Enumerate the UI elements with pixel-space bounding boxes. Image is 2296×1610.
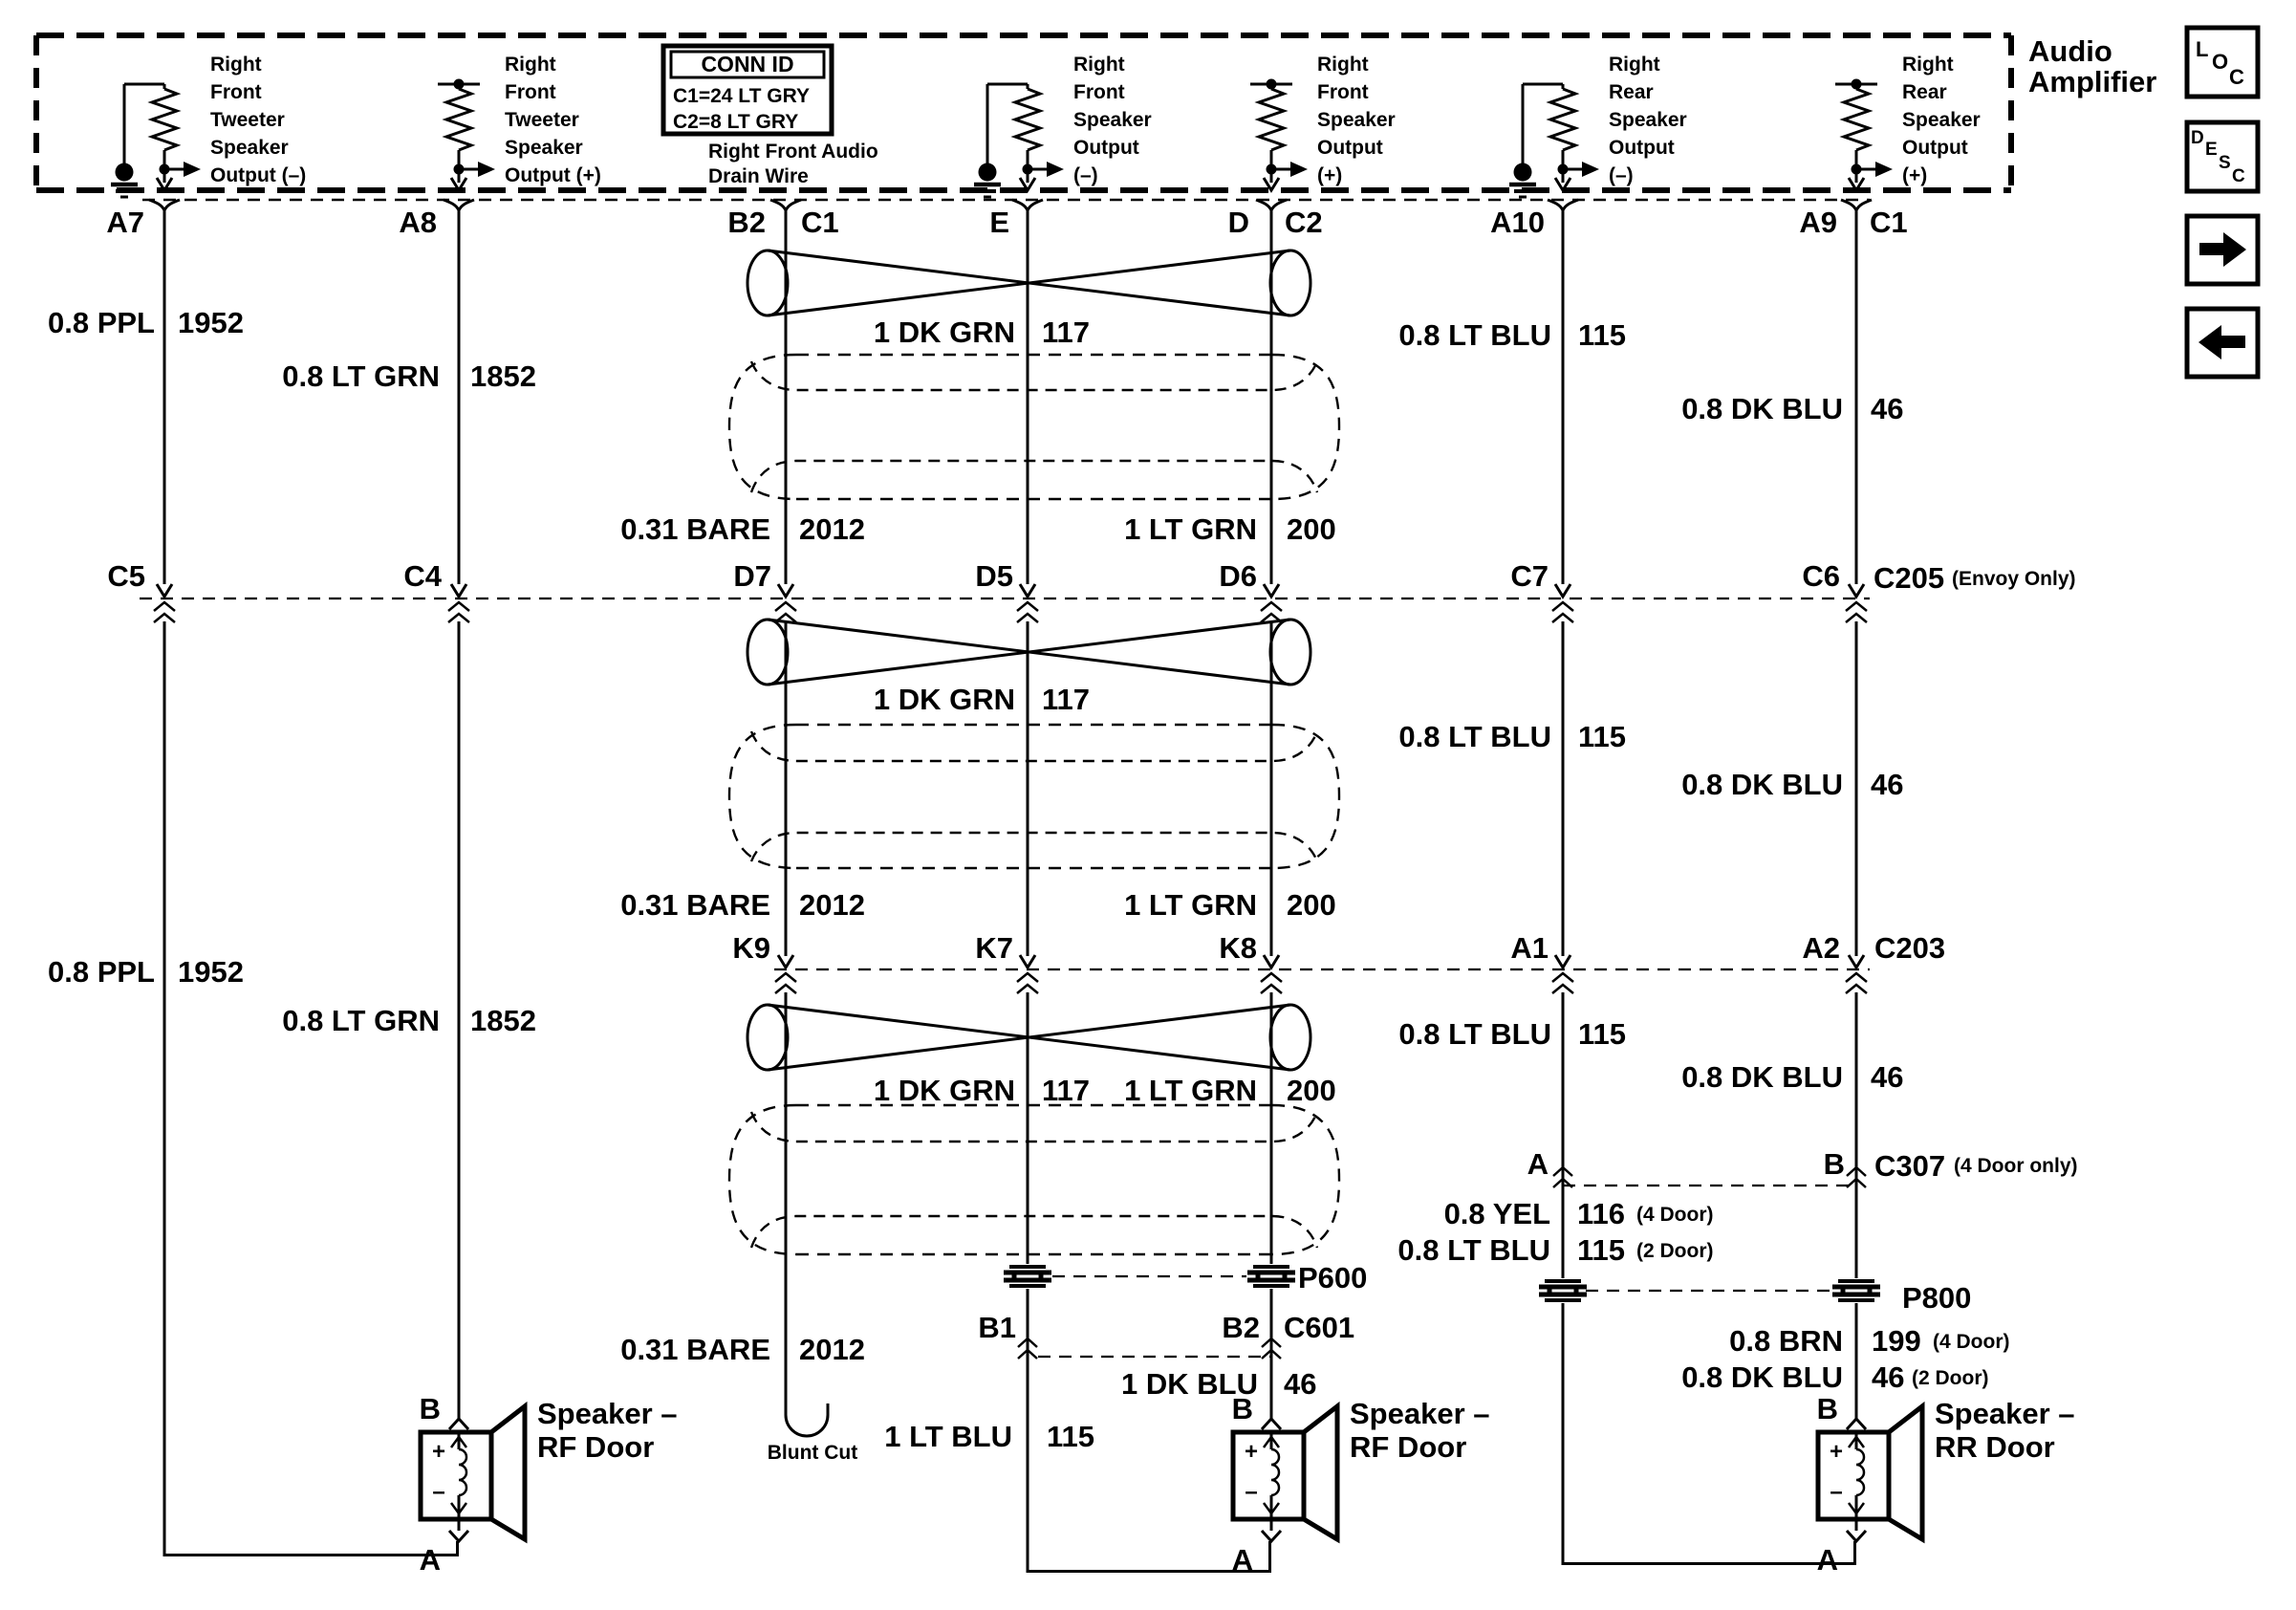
connector C205 dashed line	[140, 598, 1870, 599]
C205 female terminal D5	[1017, 602, 1038, 622]
svg-text:(4 Door only): (4 Door only)	[1954, 1155, 2078, 1177]
wire C601 to speaker2 B	[1270, 1357, 1273, 1419]
svg-text:46: 46	[1871, 392, 1903, 425]
svg-text:1 LT BLU: 1 LT BLU	[884, 1420, 1012, 1453]
C203 female terminal K8	[1261, 973, 1282, 993]
wire grommet P800 to speaker3 A	[1562, 1303, 1565, 1565]
svg-text:0.8 LT GRN: 0.8 LT GRN	[282, 359, 440, 393]
wire C4 to RF-door speaker B (0.8 LT GRN 1852 lower)	[458, 621, 461, 1419]
svg-text:(Envoy Only): (Envoy Only)	[1952, 568, 2076, 590]
grommet P800 left	[1539, 1281, 1587, 1300]
svg-text:A: A	[1232, 1543, 1253, 1577]
wire A8 to C205 (0.8 LT GRN 1852)	[451, 210, 466, 597]
svg-text:P600: P600	[1298, 1261, 1367, 1295]
svg-text:+: +	[1830, 1439, 1843, 1465]
svg-text:C2: C2	[1285, 206, 1323, 239]
label C205 (Envoy Only)	[1874, 561, 2076, 595]
speaker RF Door (main)	[1232, 1392, 1490, 1577]
C203 female terminal K9	[775, 973, 796, 993]
C205 female terminal C6	[1846, 602, 1867, 622]
svg-text:200: 200	[1287, 888, 1336, 922]
wire label 0.8 DK BLU 46 (2 Door)	[1681, 1360, 1988, 1394]
svg-text:B2: B2	[727, 206, 766, 239]
wire bottom horizontal to speaker1 A	[164, 1541, 459, 1556]
svg-text:+: +	[432, 1439, 445, 1465]
svg-text:0.31 BARE: 0.31 BARE	[620, 888, 770, 922]
svg-text:Output: Output	[1073, 137, 1139, 159]
Right Front Audio Drain Wire label	[708, 141, 878, 187]
twisted pair symbol 3	[747, 1005, 1310, 1070]
amp resistor unit - Right Front Speaker Output (-) with ground	[974, 54, 1152, 197]
svg-text:115: 115	[1577, 1233, 1625, 1267]
svg-text:C: C	[2229, 65, 2244, 89]
svg-text:L: L	[2196, 37, 2208, 61]
svg-text:A10: A10	[1490, 206, 1545, 239]
svg-text:B1: B1	[978, 1311, 1016, 1344]
amp resistor unit - Right Rear Speaker Output (-) with ground	[1509, 54, 1687, 197]
wire label 0.8 LT BLU 115 (upper)	[1398, 318, 1626, 352]
svg-text:0.8 LT GRN: 0.8 LT GRN	[282, 1004, 440, 1037]
wire K8 to grommet P600	[1270, 992, 1273, 1264]
svg-text:1 DK GRN: 1 DK GRN	[874, 1074, 1015, 1107]
svg-text:D: D	[1228, 206, 1249, 239]
wire D5 to K7	[1020, 621, 1035, 968]
DESC legend box	[2187, 122, 2258, 191]
svg-text:116: 116	[1577, 1197, 1625, 1230]
wire label 1 LT GRN 200 (third)	[1124, 1074, 1336, 1107]
svg-text:A: A	[1817, 1543, 1838, 1577]
svg-text:115: 115	[1578, 1017, 1626, 1051]
wire C6 to A2	[1849, 621, 1864, 968]
svg-text:C1: C1	[801, 206, 839, 239]
svg-text:Front: Front	[505, 81, 556, 103]
pin label D	[1228, 206, 1249, 239]
svg-text:0.8 LT BLU: 0.8 LT BLU	[1398, 318, 1551, 352]
wire C307 to grommet P800	[1562, 1186, 1565, 1278]
connector C601 dashed line	[1038, 1356, 1271, 1358]
amp connector face dashed line	[142, 199, 1870, 201]
label D6	[1219, 559, 1257, 593]
svg-text:CONN ID: CONN ID	[701, 52, 793, 76]
svg-text:K8: K8	[1219, 931, 1257, 965]
amp resistor unit - Right Front Speaker Output (+)	[1250, 54, 1396, 190]
CONN ID table box	[663, 46, 832, 134]
svg-text:Output (–): Output (–)	[210, 164, 306, 186]
amp connector pin A10	[1548, 200, 1578, 210]
cable shield symbol 2 (dashed)	[729, 725, 1339, 868]
svg-text:RF Door: RF Door	[1350, 1430, 1466, 1464]
pin label A8	[399, 206, 437, 239]
wire label 0.8 DK BLU 46 (middle)	[1681, 768, 1903, 801]
svg-text:Blunt Cut: Blunt Cut	[768, 1442, 857, 1464]
svg-text:K9: K9	[732, 931, 770, 965]
amp connector pin A9/C1	[1841, 200, 1872, 210]
svg-text:Right: Right	[210, 54, 262, 76]
svg-text:Rear: Rear	[1902, 81, 1947, 103]
svg-text:O: O	[2212, 50, 2228, 74]
C205 female terminal D7	[775, 602, 796, 622]
svg-text:46: 46	[1284, 1367, 1316, 1401]
pin label A7	[106, 206, 144, 239]
svg-text:(4 Door): (4 Door)	[1933, 1331, 2010, 1353]
wire C5 to RF-door speaker A (0.8 PPL 1952 lower)	[163, 621, 166, 1556]
svg-text:–: –	[1830, 1479, 1842, 1505]
svg-text:1952: 1952	[178, 306, 244, 339]
svg-text:S: S	[2219, 153, 2231, 173]
svg-text:46: 46	[1871, 768, 1903, 801]
svg-text:Output (+): Output (+)	[505, 164, 601, 186]
wire label 1 LT GRN 200 (first)	[1124, 512, 1336, 546]
svg-text:Front: Front	[1317, 81, 1369, 103]
wire B2 drain to C205 (0.31 BARE 2012)	[778, 210, 793, 597]
amp connector pin D/C2	[1256, 200, 1287, 210]
wire grommet to B1 connector (1 LT BLU 115)	[1027, 1289, 1029, 1357]
svg-text:Rear: Rear	[1609, 81, 1654, 103]
wire label 1 LT GRN 200 (second)	[1124, 888, 1336, 922]
svg-text:0.31 BARE: 0.31 BARE	[620, 512, 770, 546]
svg-text:0.8 PPL: 0.8 PPL	[48, 306, 155, 339]
cable shield symbol 1 (dashed)	[729, 355, 1339, 499]
wire label 0.31 BARE 2012 (third)	[620, 1333, 865, 1366]
svg-text:C: C	[2232, 166, 2245, 186]
wire K7 to grommet P600	[1027, 992, 1029, 1264]
grommet P600 dashed link	[1052, 1275, 1246, 1277]
svg-text:1952: 1952	[178, 955, 244, 989]
C307 female terminal B	[1847, 1167, 1866, 1187]
C601 female terminal B1	[1018, 1338, 1037, 1359]
Blunt Cut label	[768, 1442, 857, 1464]
wire label 1 LT BLU 115	[884, 1420, 1094, 1453]
svg-text:0.8 LT BLU: 0.8 LT BLU	[1397, 1233, 1550, 1267]
label P600	[1298, 1261, 1367, 1295]
label K7	[975, 931, 1013, 965]
wire D to C205 (1 LT GRN 200)	[1264, 210, 1279, 597]
svg-text:(+): (+)	[1902, 164, 1927, 186]
svg-text:2012: 2012	[799, 1333, 865, 1366]
pin label C1 (24-way)	[801, 206, 839, 239]
svg-text:(4 Door): (4 Door)	[1636, 1204, 1714, 1226]
svg-text:C205: C205	[1874, 561, 1944, 595]
wire D7 to K9 (0.31 BARE 2012)	[778, 621, 793, 968]
pin label A10	[1490, 206, 1545, 239]
svg-text:E: E	[2205, 140, 2218, 160]
svg-text:C4: C4	[403, 559, 442, 593]
wire bottom horizontal to speaker3 A	[1563, 1541, 1856, 1565]
svg-text:Right: Right	[1609, 54, 1660, 76]
svg-text:1 DK GRN: 1 DK GRN	[874, 315, 1015, 349]
wire C307 to grommet P800 right	[1855, 1186, 1858, 1278]
wire A9 to C205 (0.8 DK BLU 46)	[1849, 210, 1864, 597]
wire label 1 DK BLU 46	[1121, 1367, 1316, 1401]
svg-text:A8: A8	[399, 206, 437, 239]
svg-text:Audio: Audio	[2028, 34, 2112, 68]
svg-text:Amplifier: Amplifier	[2028, 65, 2156, 98]
wire label 0.8 PPL 1952 (lower)	[48, 955, 244, 989]
svg-text:0.8 BRN: 0.8 BRN	[1729, 1324, 1843, 1358]
amp resistor unit - Right Front Tweeter Speaker Output (-) with ground	[111, 54, 306, 197]
svg-text:200: 200	[1287, 512, 1336, 546]
svg-text:Right: Right	[1902, 54, 1954, 76]
C205 female terminal C4	[448, 602, 469, 622]
wire label 0.8 PPL 1952 (upper)	[48, 306, 244, 339]
wire label 0.8 LT GRN 1852 (upper)	[282, 359, 536, 393]
svg-text:1 LT GRN: 1 LT GRN	[1124, 512, 1257, 546]
label D7	[733, 559, 771, 593]
svg-text:K7: K7	[975, 931, 1013, 965]
svg-text:115: 115	[1578, 720, 1626, 753]
label B (C307)	[1824, 1147, 1845, 1181]
wire bottom horizontal to speaker2 A	[1028, 1541, 1271, 1573]
svg-text:Right: Right	[1073, 54, 1125, 76]
svg-text:115: 115	[1047, 1420, 1094, 1453]
amp connector pin A8	[444, 200, 474, 210]
label B1	[978, 1311, 1016, 1344]
wire A2 to C307 B	[1855, 992, 1858, 1186]
svg-text:0.31 BARE: 0.31 BARE	[620, 1333, 770, 1366]
svg-text:0.8 DK BLU: 0.8 DK BLU	[1681, 768, 1843, 801]
svg-text:0.8 DK BLU: 0.8 DK BLU	[1681, 1360, 1843, 1394]
svg-text:C6: C6	[1802, 559, 1840, 593]
svg-text:Speaker: Speaker	[210, 137, 289, 159]
svg-text:0.8 YEL: 0.8 YEL	[1444, 1197, 1550, 1230]
wire label 0.8 LT BLU 115 (middle)	[1398, 720, 1626, 753]
label A1	[1510, 931, 1549, 965]
C205 female terminal C5	[154, 602, 175, 622]
svg-text:C7: C7	[1510, 559, 1549, 593]
svg-text:1 DK GRN: 1 DK GRN	[874, 683, 1015, 716]
svg-text:2012: 2012	[799, 512, 865, 546]
C205 female terminal C7	[1552, 602, 1573, 622]
Audio Amplifier dashed enclosure box	[36, 35, 2011, 190]
svg-text:B: B	[1232, 1392, 1253, 1425]
svg-text:A: A	[420, 1543, 441, 1577]
svg-text:B2: B2	[1222, 1311, 1260, 1344]
svg-text:Right: Right	[1317, 54, 1369, 76]
svg-text:2012: 2012	[799, 888, 865, 922]
svg-text:Speaker –: Speaker –	[1350, 1397, 1490, 1430]
label K9	[732, 931, 770, 965]
label A2	[1802, 931, 1840, 965]
connector C307 dashed line	[1563, 1185, 1856, 1186]
C203 female terminal A1	[1552, 973, 1573, 993]
wire grommet to B2/C601 (1 DK BLU 46)	[1270, 1289, 1273, 1357]
grommet P600 left (on wire 115)	[1004, 1267, 1051, 1286]
wire label 1 DK GRN 117 (second)	[874, 683, 1090, 716]
svg-text:C1=24 LT GRY: C1=24 LT GRY	[673, 85, 810, 107]
svg-text:+: +	[1245, 1439, 1258, 1465]
svg-text:(+): (+)	[1317, 164, 1342, 186]
wire label 1 DK GRN 117 (third)	[874, 1074, 1090, 1107]
left-arrow legend box	[2187, 309, 2258, 377]
wire label 0.8 YEL 116 (4 Door)	[1444, 1197, 1714, 1230]
pin label C1 (rear)	[1870, 206, 1908, 239]
svg-text:A: A	[1527, 1147, 1549, 1181]
label P800	[1902, 1281, 1971, 1315]
svg-text:(2 Door): (2 Door)	[1636, 1240, 1714, 1262]
amp connector pin E	[1012, 200, 1043, 210]
svg-text:Right Front Audio: Right Front Audio	[708, 141, 878, 163]
svg-text:D: D	[2191, 128, 2204, 148]
svg-text:A7: A7	[106, 206, 144, 239]
grommet P800 dashed link	[1586, 1290, 1833, 1292]
svg-text:Output: Output	[1609, 137, 1675, 159]
C203 female terminal K7	[1017, 973, 1038, 993]
svg-text:Speaker: Speaker	[1317, 109, 1396, 131]
svg-text:1 LT GRN: 1 LT GRN	[1124, 888, 1257, 922]
svg-text:115: 115	[1578, 318, 1626, 352]
amp connector pin B2/C1	[770, 200, 801, 210]
wire E to C205 (1 DK GRN 117)	[1020, 210, 1035, 597]
svg-text:C5: C5	[107, 559, 145, 593]
label B2 (C601)	[1222, 1311, 1260, 1344]
svg-text:B: B	[1817, 1392, 1838, 1425]
wire B1 to speaker2 A	[1027, 1357, 1029, 1573]
svg-text:Speaker –: Speaker –	[537, 1397, 678, 1430]
svg-text:E: E	[989, 206, 1009, 239]
svg-text:0.8 DK BLU: 0.8 DK BLU	[1681, 392, 1843, 425]
svg-text:Speaker: Speaker	[1902, 109, 1981, 131]
twisted pair symbol 2	[747, 620, 1310, 685]
svg-text:Tweeter: Tweeter	[210, 109, 285, 131]
label C601	[1284, 1311, 1354, 1344]
wire label 0.8 LT BLU 115 (third)	[1398, 1017, 1626, 1051]
svg-text:C601: C601	[1284, 1311, 1354, 1344]
svg-text:D6: D6	[1219, 559, 1257, 593]
pin label A9	[1799, 206, 1837, 239]
svg-text:117: 117	[1042, 315, 1090, 349]
wire label 0.31 BARE 2012 (first)	[620, 512, 865, 546]
svg-text:46: 46	[1872, 1360, 1904, 1394]
wire label 0.31 BARE 2012 (second)	[620, 888, 865, 922]
wire A1 to C307 A	[1562, 992, 1565, 1186]
svg-text:B: B	[1824, 1147, 1845, 1181]
svg-text:199: 199	[1872, 1324, 1921, 1358]
svg-text:Front: Front	[210, 81, 262, 103]
svg-text:A2: A2	[1802, 931, 1840, 965]
amp resistor unit - Right Front Tweeter Speaker Output (+)	[438, 54, 601, 190]
grommet P800 right	[1832, 1281, 1880, 1300]
svg-text:(–): (–)	[1073, 164, 1098, 186]
C205 female terminal D6	[1261, 602, 1282, 622]
svg-text:Speaker –: Speaker –	[1935, 1397, 2075, 1430]
svg-text:D7: D7	[733, 559, 771, 593]
svg-text:RR Door: RR Door	[1935, 1430, 2055, 1464]
svg-text:C2=8 LT GRY: C2=8 LT GRY	[673, 111, 798, 133]
cable shield symbol 3 (dashed)	[729, 1105, 1339, 1254]
C601 female terminal B2	[1262, 1338, 1281, 1359]
wire label 0.8 LT BLU 115 (2 Door)	[1397, 1233, 1713, 1267]
svg-text:Front: Front	[1073, 81, 1125, 103]
label C4	[403, 559, 442, 593]
LOC legend box	[2187, 28, 2258, 97]
svg-text:1852: 1852	[470, 359, 536, 393]
svg-text:C1: C1	[1870, 206, 1908, 239]
svg-text:–: –	[1245, 1479, 1257, 1505]
svg-text:A1: A1	[1510, 931, 1549, 965]
svg-text:0.8 LT BLU: 0.8 LT BLU	[1398, 720, 1551, 753]
wire C7 to A1	[1555, 621, 1570, 968]
wire grommet P800 to speaker3 B	[1855, 1303, 1858, 1419]
svg-text:1 LT GRN: 1 LT GRN	[1124, 1074, 1257, 1107]
svg-text:1852: 1852	[470, 1004, 536, 1037]
svg-text:117: 117	[1042, 683, 1090, 716]
svg-text:C307: C307	[1874, 1149, 1945, 1183]
label C307 (4 Door only)	[1874, 1149, 2078, 1183]
twisted pair symbol 1 (RF speaker pair)	[747, 250, 1310, 315]
wire label 0.8 DK BLU 46 (upper)	[1681, 392, 1903, 425]
svg-text:Speaker: Speaker	[505, 137, 583, 159]
svg-text:C203: C203	[1874, 931, 1945, 965]
connector C203 dashed line	[774, 968, 1870, 970]
svg-text:Speaker: Speaker	[1073, 109, 1152, 131]
wire label 0.8 DK BLU 46 (third)	[1681, 1060, 1903, 1094]
svg-text:200: 200	[1287, 1074, 1336, 1107]
wire label 1 DK GRN 117 (first)	[874, 315, 1090, 349]
wire A7 to C205 connector (0.8 PPL 1952)	[157, 210, 172, 597]
svg-text:P800: P800	[1902, 1281, 1971, 1315]
C307 female terminal A	[1553, 1167, 1572, 1187]
svg-text:Drain Wire: Drain Wire	[708, 165, 809, 187]
wire A10 to C205 (0.8 LT BLU 115)	[1555, 210, 1570, 597]
svg-text:RF Door: RF Door	[537, 1430, 654, 1464]
wire label 0.8 BRN 199 (4 Door)	[1729, 1324, 2009, 1358]
svg-text:0.8 PPL: 0.8 PPL	[48, 955, 155, 989]
svg-text:46: 46	[1871, 1060, 1903, 1094]
svg-text:Right: Right	[505, 54, 556, 76]
right-arrow legend box	[2187, 216, 2258, 284]
wire K9 to blunt cut (0.31 BARE 2012)	[786, 992, 828, 1436]
svg-text:117: 117	[1042, 1074, 1090, 1107]
label K8	[1219, 931, 1257, 965]
C203 female terminal A2	[1846, 973, 1867, 993]
label C6	[1802, 559, 1840, 593]
speaker RR Door	[1817, 1392, 2075, 1577]
svg-text:0.8 DK BLU: 0.8 DK BLU	[1681, 1060, 1843, 1094]
pin label C2 (8-way)	[1285, 206, 1323, 239]
svg-text:(–): (–)	[1609, 164, 1634, 186]
amp connector pin A7	[149, 200, 180, 210]
svg-text:Output: Output	[1317, 137, 1383, 159]
label D5	[975, 559, 1013, 593]
grommet P600 right (on wire 46)	[1247, 1267, 1295, 1286]
label A (C307)	[1527, 1147, 1549, 1181]
svg-text:B: B	[420, 1392, 441, 1425]
amp resistor unit - Right Rear Speaker Output (+)	[1835, 54, 1981, 190]
svg-text:(2 Door): (2 Door)	[1912, 1367, 1989, 1389]
wire D6 to K8	[1264, 621, 1279, 968]
svg-text:Speaker: Speaker	[1609, 109, 1687, 131]
label C7	[1510, 559, 1549, 593]
pin label B2	[727, 206, 766, 239]
label C203	[1874, 931, 1945, 965]
svg-text:Output: Output	[1902, 137, 1968, 159]
Audio Amplifier title label	[2028, 34, 2156, 98]
speaker RF Door (tweeter circuit)	[420, 1392, 678, 1577]
pin label E	[989, 206, 1009, 239]
svg-text:–: –	[432, 1479, 444, 1505]
svg-text:Tweeter: Tweeter	[505, 109, 579, 131]
svg-text:A9: A9	[1799, 206, 1837, 239]
svg-text:0.8 LT BLU: 0.8 LT BLU	[1398, 1017, 1551, 1051]
label C5	[107, 559, 145, 593]
svg-text:D5: D5	[975, 559, 1013, 593]
wire label 0.8 LT GRN 1852 (lower)	[282, 1004, 536, 1037]
